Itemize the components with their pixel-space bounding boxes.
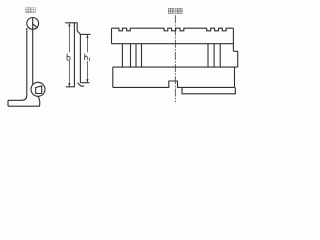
label h1 xyxy=(85,54,90,61)
right figure caption xyxy=(168,8,182,13)
centerline / leader xyxy=(174,15,176,102)
foot block bottom right xyxy=(182,87,235,93)
top edge with b extension xyxy=(65,22,77,24)
right edge upper xyxy=(76,23,78,31)
foot left cap xyxy=(7,100,9,106)
right edge lower xyxy=(79,34,81,82)
top bar right edge + wall xyxy=(232,28,234,51)
slab top edge xyxy=(113,66,238,68)
step horizontal with h1 extension xyxy=(80,33,90,35)
top bar left edge xyxy=(111,28,113,44)
step chamfer xyxy=(77,31,80,35)
left legs xyxy=(130,44,132,67)
top bar notched top edge xyxy=(112,28,234,31)
diagonal chord in eye xyxy=(33,24,38,28)
slab left edge xyxy=(112,67,114,87)
dimension line h1 xyxy=(86,35,88,82)
flag mark inside detail circle xyxy=(36,86,42,94)
top eye circle xyxy=(27,18,39,30)
dimension line b xyxy=(68,23,70,86)
top bar bottom edge xyxy=(112,43,234,45)
chord vertical in eye / rod right edge xyxy=(32,18,34,85)
bottom foot diagonal xyxy=(78,83,81,87)
bottom right edge / h1 extension xyxy=(80,82,89,84)
slab right edge xyxy=(234,67,236,87)
right legs xyxy=(207,44,209,67)
label b xyxy=(67,54,70,61)
b bottom extension tick xyxy=(66,86,75,88)
bend detail circle xyxy=(31,82,45,96)
right lip xyxy=(233,51,237,67)
left edge xyxy=(73,23,75,87)
left figure caption xyxy=(26,8,31,13)
rod left edge with bend fillet xyxy=(8,28,27,100)
slab bottom with notch xyxy=(113,81,235,87)
middle band left wall xyxy=(121,44,123,67)
foot bottom edge and outer bend curve xyxy=(8,96,40,106)
